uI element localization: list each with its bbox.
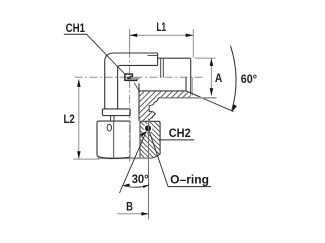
nut outline [97, 121, 130, 158]
cone surface line [186, 91, 202, 98]
thread undercut line 1 [160, 58, 162, 77]
nut right section edge [129, 121, 131, 157]
30 arc arrow left [123, 184, 130, 187]
port end face section edge [191, 77, 193, 96]
corner clip feature outline [125, 74, 132, 80]
L1 arrow left [130, 34, 138, 38]
port bottom wall edge / A extension (gray) [160, 97, 217, 99]
O-ring underline [168, 186, 211, 188]
washer [102, 109, 130, 116]
60 arc arrowhead [232, 104, 237, 111]
L1 extension line left [129, 29, 131, 49]
30 arc arrow right [143, 185, 150, 188]
wire horizontal centerline [75, 76, 203, 78]
svg-text:O–ring: O–ring [170, 172, 209, 186]
30 leg arrowhead [140, 131, 147, 136]
L2 dimension line [78, 79, 80, 159]
bottom stud end gray band [98, 157, 152, 159]
cone extension line to 60deg arc [202, 98, 234, 112]
corner clip bottom bar [124, 79, 137, 81]
nut chamfer ellipse [107, 124, 111, 131]
30 deg leg line [120, 132, 146, 193]
body hex chamfer line [148, 54, 158, 56]
neck line 2 [113, 116, 115, 122]
CH2 underline leader [159, 139, 194, 141]
nut section left edge [139, 121, 141, 158]
A arrow up [210, 58, 214, 66]
hatch stroke near corner clip [134, 83, 139, 91]
svg-text:CH1: CH1 [66, 21, 86, 35]
O-ring groove (white) [144, 124, 153, 133]
hatch body corner ("/" lines) [105, 83, 207, 125]
right port top edge [158, 57, 191, 59]
L2 bottom extension [73, 158, 99, 160]
B arrow [141, 212, 148, 216]
corner clip inner block [127, 77, 131, 79]
elbow body inner contour [118, 65, 158, 109]
svg-text:30°: 30° [132, 172, 149, 186]
down port bore wall [138, 83, 140, 121]
svg-text:A: A [215, 71, 223, 85]
nut facet line [113, 121, 115, 158]
O-ring [145, 125, 151, 131]
nut section outline [140, 121, 160, 158]
elbow body outer contour [105, 53, 158, 109]
L2 arrow up [77, 79, 81, 87]
bore line of right port [138, 90, 186, 92]
60 degree arc [231, 46, 237, 111]
cone base edge [185, 77, 187, 91]
A extension top [195, 57, 216, 59]
svg-text:CH2: CH2 [169, 126, 191, 140]
L1 dimension line [130, 34, 194, 36]
B dimension line [117, 213, 149, 215]
svg-text:B: B [126, 199, 133, 213]
washer right end edge [129, 109, 131, 116]
body shoulder face [157, 53, 159, 65]
30 arc [123, 185, 149, 187]
neck line 1 [110, 116, 112, 122]
corner clip gray bar [131, 77, 140, 79]
L2 arrow down [77, 151, 81, 159]
svg-text:L1: L1 [157, 20, 167, 34]
section wall step profile (thread teeth) [149, 97, 160, 118]
wire vertical centerline [129, 29, 131, 50]
L1 arrow right [186, 34, 194, 38]
CH1 underline [64, 33, 87, 35]
A arrow down [210, 88, 214, 96]
O-ring leader [149, 131, 168, 186]
30 vertical line [148, 119, 150, 220]
svg-text:L2: L2 [64, 112, 75, 126]
right port end face [190, 58, 192, 94]
L1 extension line right [192, 29, 194, 58]
svg-text:60°: 60° [241, 72, 257, 86]
A dimension line [210, 58, 212, 96]
thread undercut line 2 [162, 58, 164, 77]
CH1 leader [87, 34, 125, 73]
hatch nut section ("\" lines) [97, 115, 202, 165]
